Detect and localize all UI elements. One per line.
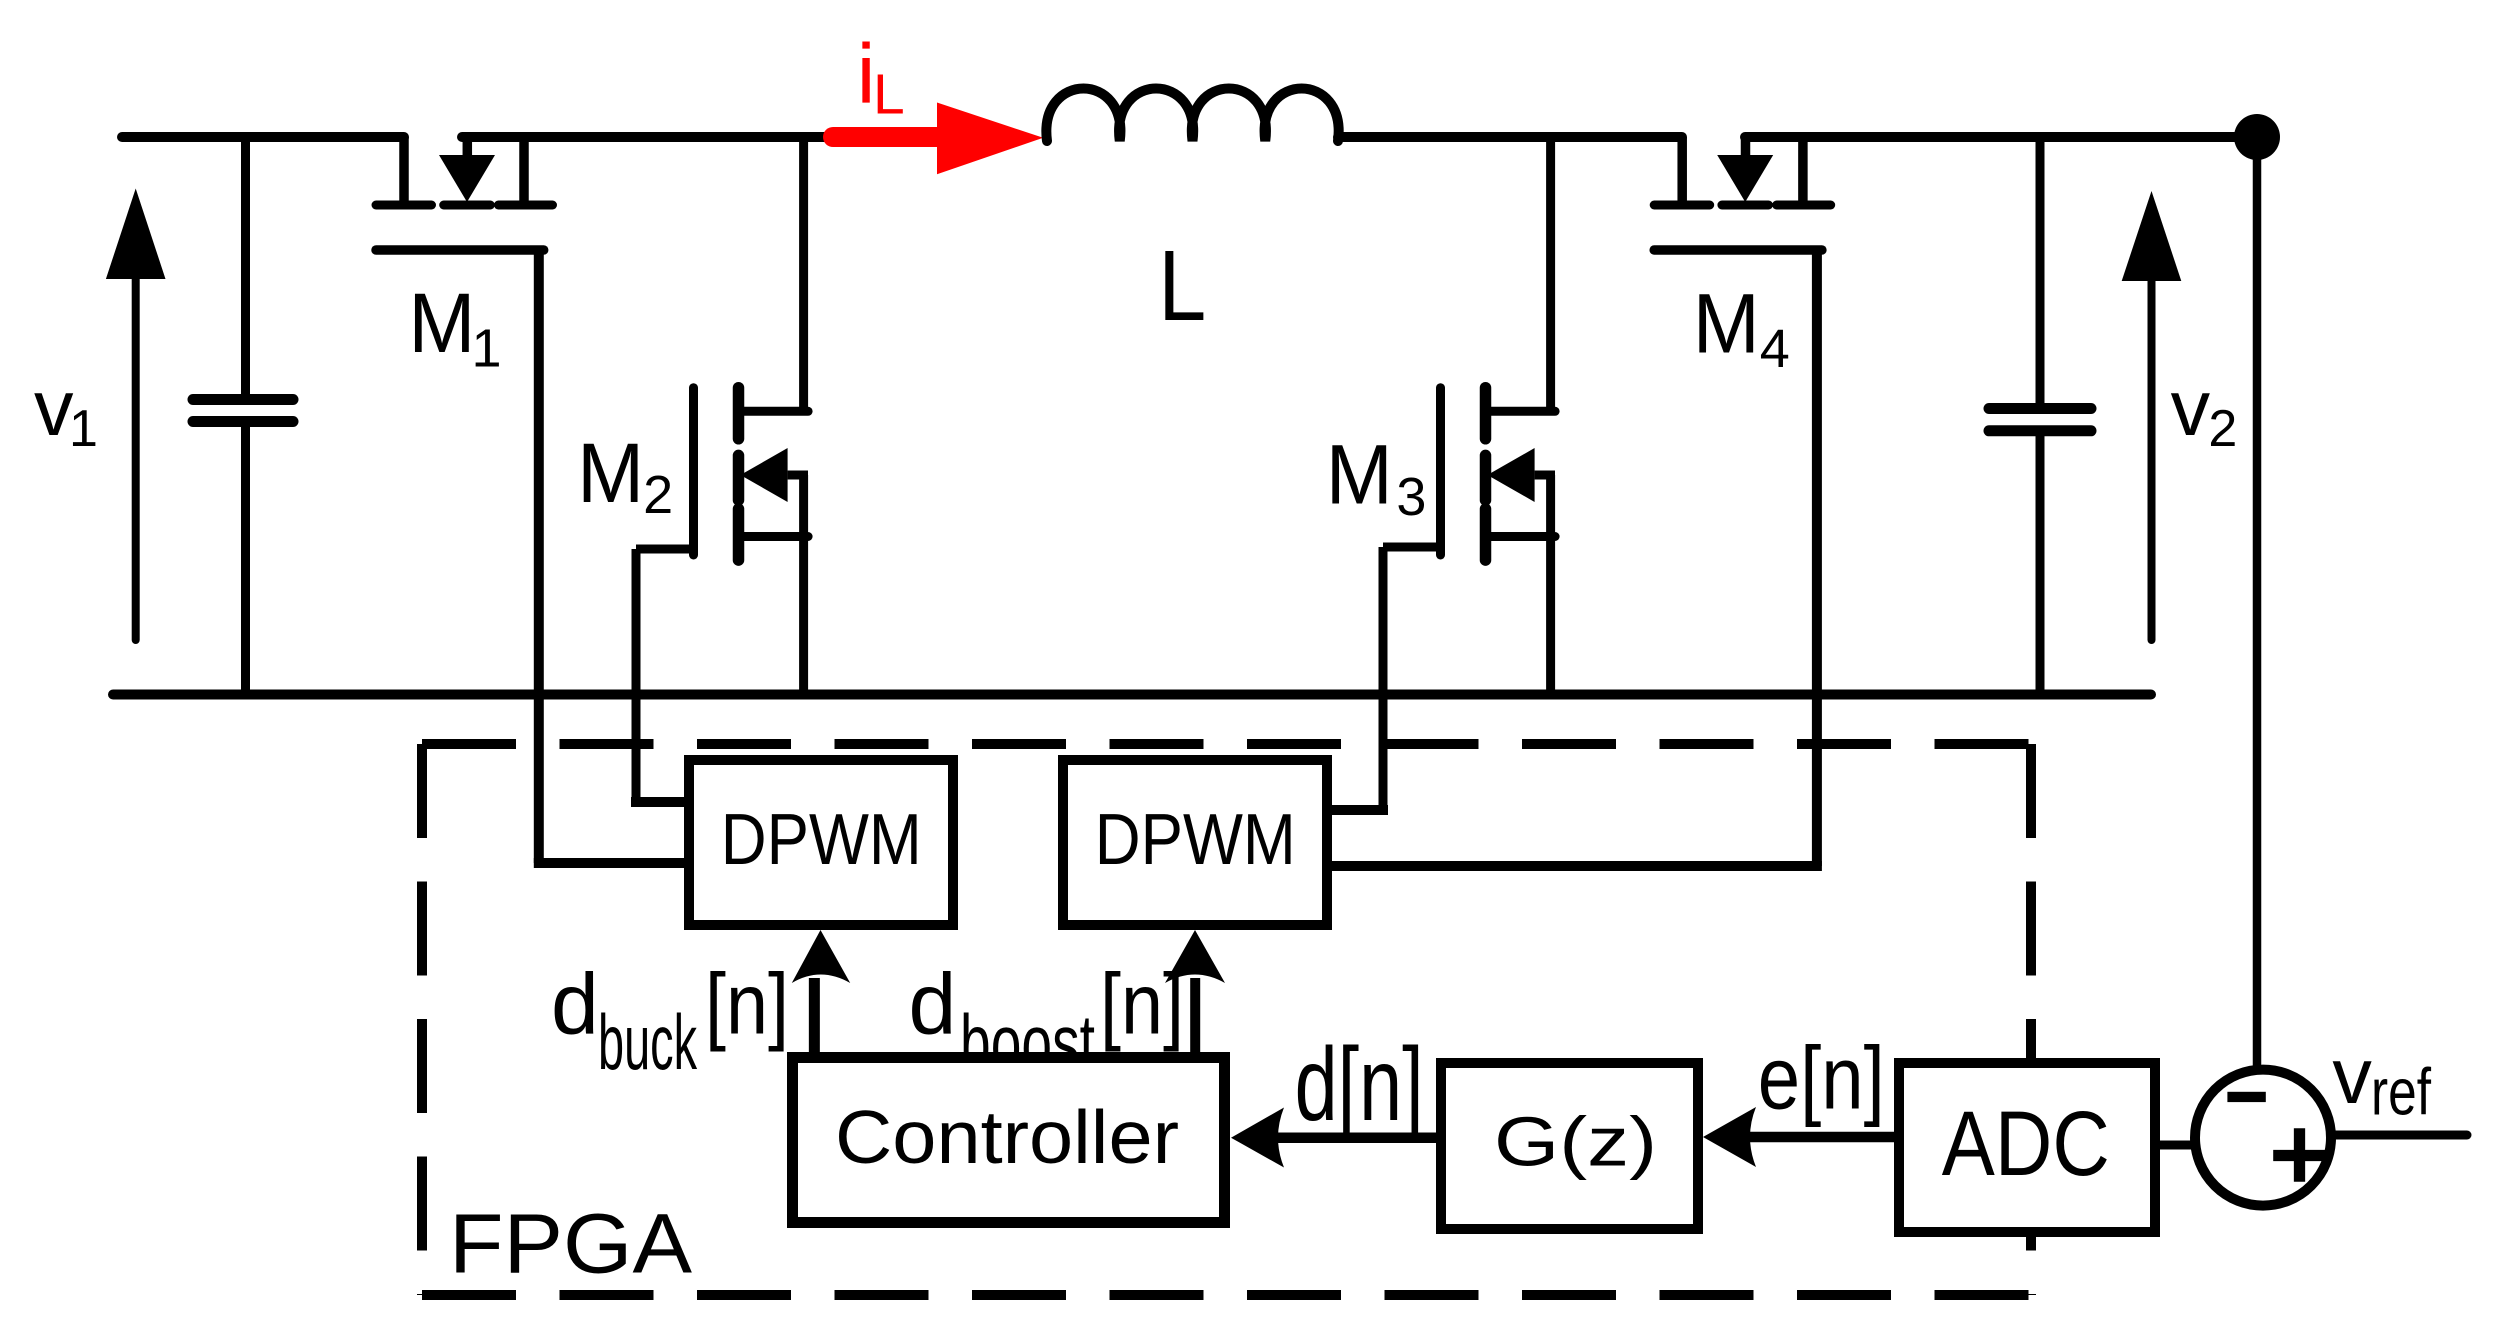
svg-text:[n]: [n]: [705, 957, 789, 1053]
d_boost[n] label: [909, 957, 1185, 1086]
svg-text:d: d: [909, 957, 957, 1053]
inductor L: [1046, 89, 1338, 142]
capacitor C1: [193, 137, 293, 695]
svg-text:v: v: [2171, 363, 2211, 452]
minus sign: [2227, 1092, 2265, 1102]
node junction dot: [2234, 114, 2280, 160]
transistor M3: [1441, 137, 1556, 695]
M1 label: [408, 276, 501, 378]
M3 label: [1326, 428, 1427, 527]
v2 arrow: [2122, 191, 2182, 640]
FPGA dashed box: [422, 744, 2031, 1295]
M4 label: [1693, 277, 1790, 379]
v1 label: [34, 363, 98, 458]
DPWM1 box: [689, 760, 953, 925]
v1 arrow: [106, 189, 166, 641]
wire feedback vertical: [2253, 137, 2262, 1066]
svg-text:[n]: [n]: [1100, 957, 1184, 1053]
svg-text:3: 3: [1396, 467, 1426, 527]
d_buck[n] label: [551, 957, 789, 1086]
transistor M1: [376, 137, 553, 250]
svg-text:v: v: [34, 363, 74, 452]
svg-text:e[n]: e[n]: [1758, 1027, 1885, 1127]
plus sign: [2273, 1128, 2326, 1181]
svg-text:M: M: [577, 426, 644, 520]
iL label: [857, 27, 905, 127]
svg-text:ref: ref: [2371, 1055, 2432, 1129]
arrow G(z) to Controller: [1231, 1108, 1441, 1168]
wire M3 gate to DPWM2: [1327, 547, 1441, 810]
arrow dbuck to DPWM1: [792, 930, 850, 1052]
G(z) box: [1441, 1063, 1698, 1229]
capacitor C2: [1989, 137, 2091, 695]
v2 label: [2171, 363, 2238, 458]
svg-text:2: 2: [643, 465, 673, 525]
svg-text:d[n]: d[n]: [1295, 1027, 1424, 1143]
wire ADC to summing node: [2160, 1141, 2196, 1150]
transistor M2: [694, 137, 809, 695]
M2 label: [577, 426, 673, 525]
vref label: [2332, 1031, 2431, 1129]
svg-text:d: d: [551, 957, 599, 1053]
wire vref line: [2331, 1131, 2467, 1140]
svg-text:FPGA: FPGA: [449, 1197, 692, 1291]
wire M1 gate to DPWM1: [534, 250, 689, 863]
wire bottom rail: [113, 690, 2151, 700]
wire M2 gate to DPWM1: [631, 549, 694, 802]
transistor M4: [1654, 137, 1831, 250]
ADC box: [1899, 1063, 2155, 1232]
svg-text:4: 4: [1760, 319, 1790, 379]
svg-text:1: 1: [472, 319, 502, 379]
svg-text:M: M: [1693, 277, 1760, 371]
svg-text:M: M: [408, 276, 475, 370]
svg-text:DPWM: DPWM: [721, 800, 922, 880]
DPWM2 box: [1063, 760, 1327, 925]
svg-text:L: L: [1158, 230, 1206, 342]
svg-text:v: v: [2332, 1031, 2372, 1120]
svg-text:Controller: Controller: [835, 1095, 1179, 1179]
svg-text:M: M: [1326, 428, 1393, 522]
svg-text:2: 2: [2208, 400, 2237, 458]
svg-text:1: 1: [69, 400, 98, 458]
svg-text:G(z): G(z): [1494, 1103, 1657, 1181]
arrow dboost to DPWM2: [1165, 930, 1225, 1052]
svg-text:buck: buck: [598, 998, 698, 1086]
wire top rail: [122, 132, 2257, 142]
svg-text:DPWM: DPWM: [1095, 800, 1296, 880]
arrow ADC to G(z): [1703, 1107, 1899, 1167]
svg-text:ADC: ADC: [1942, 1093, 2110, 1195]
Controller box: [793, 1058, 1225, 1223]
wire M4 gate to DPWM2: [1327, 250, 1822, 866]
iL red arrow: [833, 103, 1043, 175]
svg-text:L: L: [873, 62, 905, 126]
summing node circle: [2195, 1070, 2331, 1206]
